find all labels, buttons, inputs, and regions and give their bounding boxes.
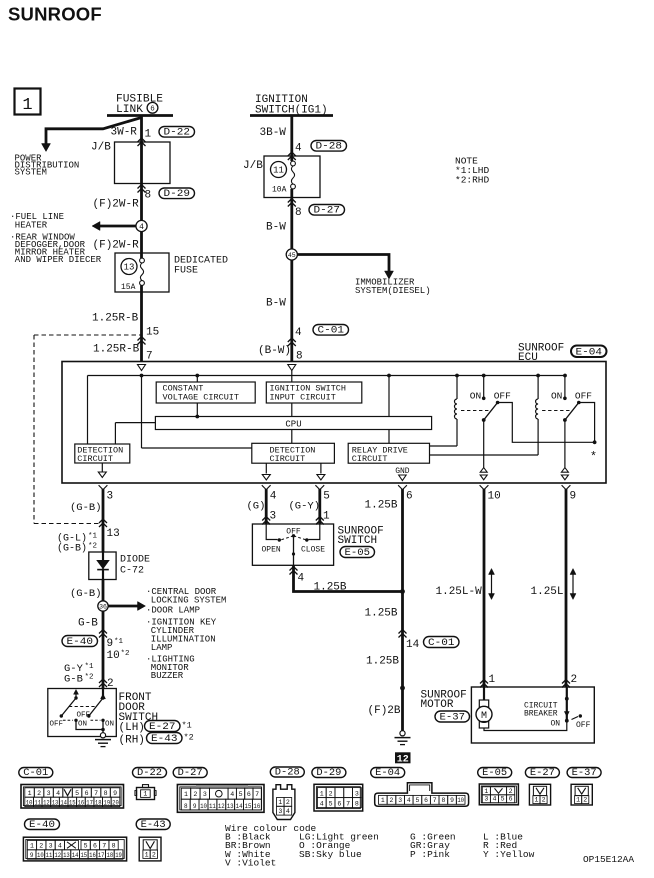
svg-text:6: 6 <box>337 801 341 808</box>
svg-text:1: 1 <box>381 797 385 804</box>
svg-text:*: * <box>590 450 597 464</box>
svg-text:15: 15 <box>80 852 87 859</box>
svg-text:·DOOR LAMP: ·DOOR LAMP <box>146 606 200 616</box>
svg-text:3: 3 <box>49 842 53 849</box>
svg-text:ON: ON <box>551 391 562 402</box>
svg-text:1.25B: 1.25B <box>365 500 398 512</box>
svg-text:11: 11 <box>46 852 53 859</box>
svg-text:3B-W: 3B-W <box>260 127 287 139</box>
svg-text:2: 2 <box>329 791 333 798</box>
svg-text:1: 1 <box>30 842 34 849</box>
svg-text:1: 1 <box>278 799 282 806</box>
svg-text:12: 12 <box>397 754 409 765</box>
svg-text:ON: ON <box>470 391 481 402</box>
svg-text:E-40: E-40 <box>29 820 55 831</box>
svg-text:OFF: OFF <box>77 712 91 720</box>
svg-text:*2: *2 <box>85 674 94 682</box>
svg-text:4: 4 <box>139 223 144 232</box>
svg-text:M: M <box>481 711 487 722</box>
svg-text:(LH): (LH) <box>119 722 145 734</box>
svg-text:4: 4 <box>230 791 234 798</box>
svg-text:(B-W): (B-W) <box>258 345 291 357</box>
svg-text:B-W: B-W <box>266 298 286 310</box>
svg-text:1: 1 <box>576 797 580 804</box>
svg-text:INPUT CIRCUIT: INPUT CIRCUIT <box>270 393 336 403</box>
svg-text:19: 19 <box>115 852 122 859</box>
svg-text:7: 7 <box>94 790 98 797</box>
svg-text:15A: 15A <box>121 283 136 292</box>
svg-text:*2:RHD: *2:RHD <box>455 175 490 186</box>
svg-text:J/B: J/B <box>91 142 111 154</box>
svg-text:AND WIPER DIECER: AND WIPER DIECER <box>15 255 102 265</box>
svg-text:17: 17 <box>98 852 105 859</box>
svg-text:OP15E12AA: OP15E12AA <box>583 855 635 865</box>
svg-text:8: 8 <box>145 190 152 202</box>
svg-text:4: 4 <box>295 327 302 339</box>
svg-text:(F)2W-R: (F)2W-R <box>93 240 140 252</box>
svg-text:16: 16 <box>78 800 85 807</box>
svg-text:3: 3 <box>270 511 277 523</box>
svg-text:ON: ON <box>78 720 87 728</box>
svg-text:15: 15 <box>69 800 76 807</box>
svg-text:3: 3 <box>47 790 51 797</box>
svg-text:20: 20 <box>112 800 119 807</box>
svg-text:12: 12 <box>218 803 225 810</box>
svg-text:11: 11 <box>34 800 41 807</box>
svg-text:11: 11 <box>209 803 216 810</box>
svg-text:1.25B: 1.25B <box>314 582 347 594</box>
svg-text:C-01: C-01 <box>23 768 48 779</box>
svg-text:13: 13 <box>107 528 120 540</box>
svg-text:6: 6 <box>247 791 251 798</box>
svg-text:9: 9 <box>113 790 117 797</box>
svg-text:SB:Sky blue: SB:Sky blue <box>299 849 362 860</box>
svg-text:2: 2 <box>193 791 197 798</box>
svg-text:D-22: D-22 <box>137 768 162 779</box>
svg-text:LOCKING SYSTEM: LOCKING SYSTEM <box>151 596 227 606</box>
svg-text:VOLTAGE CIRCUIT: VOLTAGE CIRCUIT <box>163 393 240 403</box>
svg-text:13: 13 <box>63 852 70 859</box>
svg-text:3: 3 <box>484 796 488 803</box>
svg-text:FUSE: FUSE <box>174 266 198 277</box>
svg-text:8: 8 <box>104 790 108 797</box>
svg-text:(G-B): (G-B) <box>70 588 102 600</box>
svg-text:36: 36 <box>99 603 107 610</box>
svg-text:1.25L-W: 1.25L-W <box>436 586 483 598</box>
svg-text:10: 10 <box>37 852 44 859</box>
svg-text:1: 1 <box>145 851 149 858</box>
svg-text:4: 4 <box>58 842 62 849</box>
svg-text:CIRCUIT: CIRCUIT <box>352 454 388 464</box>
svg-text:2: 2 <box>286 799 290 806</box>
svg-text:3: 3 <box>355 791 359 798</box>
svg-text:5: 5 <box>239 791 243 798</box>
svg-text:19: 19 <box>104 800 111 807</box>
svg-text:10A: 10A <box>272 186 287 195</box>
svg-text:*2: *2 <box>184 733 194 743</box>
svg-text:(RH): (RH) <box>119 735 145 747</box>
svg-text:1.25R-B: 1.25R-B <box>93 344 140 356</box>
svg-text:E-27: E-27 <box>530 768 555 779</box>
svg-text:5: 5 <box>84 842 88 849</box>
svg-text:C-01: C-01 <box>318 326 345 337</box>
svg-text:OFF: OFF <box>576 721 591 730</box>
svg-text:16: 16 <box>253 803 260 810</box>
svg-text:BREAKER: BREAKER <box>524 710 558 719</box>
svg-text:1: 1 <box>143 791 147 798</box>
svg-text:MOTOR: MOTOR <box>421 699 454 711</box>
svg-text:5: 5 <box>75 790 79 797</box>
svg-text:9: 9 <box>107 638 114 650</box>
svg-text:4: 4 <box>407 797 411 804</box>
svg-text:14: 14 <box>236 803 243 810</box>
svg-text:12: 12 <box>54 852 61 859</box>
svg-text:2: 2 <box>583 797 587 804</box>
svg-text:D-22: D-22 <box>164 128 191 139</box>
svg-text:14: 14 <box>72 852 79 859</box>
svg-text:E-43: E-43 <box>141 820 166 831</box>
svg-text:G-B: G-B <box>78 618 98 630</box>
svg-text:*1: *1 <box>88 533 98 541</box>
svg-text:13: 13 <box>227 803 234 810</box>
svg-text:OPEN: OPEN <box>262 546 281 555</box>
svg-text:E-43: E-43 <box>151 734 178 745</box>
svg-text:5: 5 <box>329 801 333 808</box>
svg-text:9: 9 <box>450 797 454 804</box>
svg-text:E-05: E-05 <box>345 548 371 559</box>
svg-text:C-72: C-72 <box>120 566 144 577</box>
svg-text:(G-B): (G-B) <box>57 543 87 555</box>
svg-text:*1: *1 <box>114 638 124 646</box>
svg-text:HEATER: HEATER <box>15 220 48 230</box>
svg-text:B-W: B-W <box>266 222 286 234</box>
svg-text:E-04: E-04 <box>375 768 400 779</box>
svg-text:12: 12 <box>43 800 50 807</box>
svg-text:4: 4 <box>270 491 277 503</box>
svg-text:1: 1 <box>22 96 32 115</box>
svg-text:15: 15 <box>146 327 159 339</box>
svg-text:D-28: D-28 <box>316 142 343 153</box>
svg-text:1.25B: 1.25B <box>366 656 399 668</box>
svg-text:4: 4 <box>492 796 496 803</box>
svg-text:*1: *1 <box>85 663 95 671</box>
svg-text:P :Pink: P :Pink <box>410 849 450 860</box>
svg-text:LAMP: LAMP <box>151 643 173 653</box>
svg-text:OFF: OFF <box>494 391 511 402</box>
svg-text:2: 2 <box>152 851 156 858</box>
svg-text:CPU: CPU <box>285 419 301 429</box>
svg-text:10: 10 <box>457 797 464 804</box>
svg-text:16: 16 <box>89 852 96 859</box>
svg-text:2: 2 <box>390 797 394 804</box>
svg-text:4: 4 <box>298 573 305 585</box>
svg-text:2: 2 <box>39 842 43 849</box>
svg-text:4: 4 <box>320 801 324 808</box>
svg-text:10: 10 <box>200 803 207 810</box>
svg-text:6: 6 <box>424 797 428 804</box>
svg-text:10: 10 <box>107 650 120 662</box>
svg-text:GND: GND <box>395 467 410 476</box>
svg-text:3: 3 <box>203 791 207 798</box>
svg-text:BUZZER: BUZZER <box>151 671 184 681</box>
svg-text:13: 13 <box>52 800 59 807</box>
svg-text:ON: ON <box>105 720 114 728</box>
svg-text:9: 9 <box>193 803 197 810</box>
svg-text:E-37: E-37 <box>572 768 597 779</box>
svg-text:D-28: D-28 <box>275 768 300 779</box>
svg-text:3: 3 <box>278 808 282 815</box>
svg-text:14: 14 <box>406 639 420 651</box>
svg-text:5: 5 <box>416 797 420 804</box>
svg-text:(G-Y): (G-Y) <box>289 501 321 513</box>
svg-text:1.25R-B: 1.25R-B <box>92 313 139 325</box>
svg-text:6: 6 <box>509 796 513 803</box>
svg-text:V :Violet: V :Violet <box>225 857 276 868</box>
svg-text:8: 8 <box>295 207 302 219</box>
svg-text:2: 2 <box>571 674 578 686</box>
svg-text:15: 15 <box>245 803 252 810</box>
svg-text:1: 1 <box>28 790 32 797</box>
svg-text:D-27: D-27 <box>178 768 203 779</box>
svg-text:4: 4 <box>295 143 302 155</box>
svg-text:D-29: D-29 <box>316 768 341 779</box>
svg-text:18: 18 <box>95 800 102 807</box>
svg-text:4: 4 <box>286 808 290 815</box>
svg-text:E-37: E-37 <box>440 713 466 724</box>
svg-text:1.25B: 1.25B <box>365 608 398 620</box>
svg-text:E-04: E-04 <box>576 348 603 359</box>
svg-text:SWITCH: SWITCH <box>338 535 378 547</box>
svg-text:ON: ON <box>551 720 561 729</box>
svg-text:E-27: E-27 <box>149 722 176 733</box>
svg-text:SYSTEM(DIESEL): SYSTEM(DIESEL) <box>355 286 431 296</box>
svg-text:1: 1 <box>323 511 330 523</box>
svg-text:7: 7 <box>255 791 259 798</box>
svg-text:E-40: E-40 <box>67 637 94 648</box>
svg-text:E-05: E-05 <box>482 768 507 779</box>
svg-text:6: 6 <box>150 106 155 114</box>
svg-text:3: 3 <box>107 491 114 503</box>
svg-text:8: 8 <box>355 801 359 808</box>
svg-text:10: 10 <box>26 800 33 807</box>
svg-text:(F)2W-R: (F)2W-R <box>93 199 140 211</box>
svg-text:3: 3 <box>398 797 402 804</box>
svg-text:OFF: OFF <box>575 391 592 402</box>
svg-text:CIRCUIT: CIRCUIT <box>77 454 113 464</box>
svg-text:9: 9 <box>30 852 34 859</box>
svg-text:45: 45 <box>288 252 296 259</box>
svg-text:J/B: J/B <box>243 160 263 172</box>
svg-text:3W-R: 3W-R <box>111 127 138 139</box>
svg-text:OFF: OFF <box>50 720 64 728</box>
svg-text:13: 13 <box>124 263 135 273</box>
svg-text:(G-B): (G-B) <box>70 502 102 514</box>
svg-text:1: 1 <box>145 129 152 141</box>
svg-text:2: 2 <box>509 788 513 795</box>
svg-text:CLOSE: CLOSE <box>301 546 325 555</box>
svg-text:6: 6 <box>93 842 97 849</box>
svg-text:4: 4 <box>56 790 60 797</box>
svg-text:D-29: D-29 <box>164 189 191 200</box>
svg-text:*2: *2 <box>88 543 97 551</box>
svg-text:8: 8 <box>184 803 188 810</box>
svg-text:2: 2 <box>37 790 41 797</box>
svg-text:1: 1 <box>489 674 496 686</box>
svg-text:6: 6 <box>85 790 89 797</box>
svg-text:C-01: C-01 <box>428 638 455 649</box>
svg-text:1: 1 <box>184 791 188 798</box>
svg-text:Y :Yellow: Y :Yellow <box>483 849 535 860</box>
svg-text:8: 8 <box>441 797 445 804</box>
svg-text:5: 5 <box>323 491 330 503</box>
svg-text:DIODE: DIODE <box>120 555 150 566</box>
svg-text:1: 1 <box>320 791 324 798</box>
svg-text:18: 18 <box>107 852 114 859</box>
svg-text:9: 9 <box>570 491 577 503</box>
svg-text:1: 1 <box>534 797 538 804</box>
svg-text:*1: *1 <box>182 721 192 731</box>
svg-text:SUNROOF: SUNROOF <box>8 4 102 25</box>
svg-text:D-27: D-27 <box>314 206 341 217</box>
svg-text:(F)2B: (F)2B <box>368 705 401 717</box>
svg-text:10: 10 <box>488 491 501 503</box>
svg-text:14: 14 <box>60 800 67 807</box>
svg-text:6: 6 <box>406 491 413 503</box>
svg-text:G-B: G-B <box>64 674 83 686</box>
svg-text:11: 11 <box>273 166 284 176</box>
svg-text:5: 5 <box>501 796 505 803</box>
svg-text:7: 7 <box>102 842 106 849</box>
svg-text:1: 1 <box>484 788 488 795</box>
svg-text:2: 2 <box>542 797 546 804</box>
svg-text:17: 17 <box>86 800 93 807</box>
svg-text:7: 7 <box>433 797 437 804</box>
svg-text:7: 7 <box>346 801 350 808</box>
svg-text:1.25L: 1.25L <box>531 586 564 598</box>
svg-text:8: 8 <box>112 842 116 849</box>
svg-text:SYSTEM: SYSTEM <box>15 168 47 178</box>
svg-text:*2: *2 <box>121 650 130 658</box>
svg-text:CIRCUIT: CIRCUIT <box>270 454 306 464</box>
svg-text:(G): (G) <box>247 501 266 513</box>
